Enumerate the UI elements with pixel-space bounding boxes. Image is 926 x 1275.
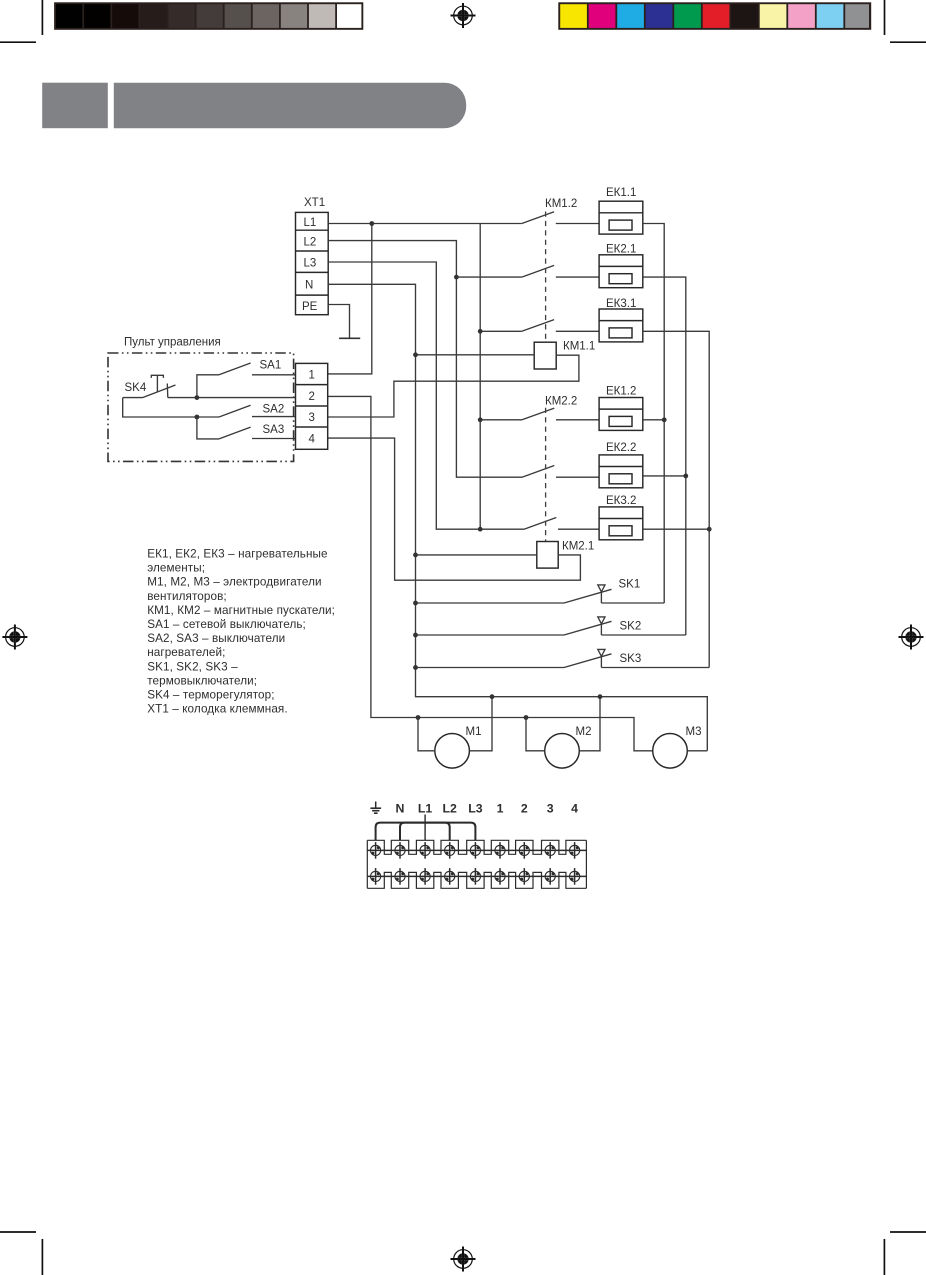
svg-text:3: 3 xyxy=(547,801,554,815)
wire L3 xyxy=(328,262,524,529)
svg-text:L3: L3 xyxy=(468,801,483,815)
switch SA2 xyxy=(219,405,296,417)
svg-text:4: 4 xyxy=(571,801,578,815)
wire L1 drop to terminal 1 xyxy=(328,224,372,374)
wire EK3.2 to bus xyxy=(643,528,709,530)
contact KM2.2 pole 3 xyxy=(524,518,599,530)
svg-text:L1: L1 xyxy=(304,217,317,229)
svg-text:SA1 – сетевой выключатель;: SA1 – сетевой выключатель; xyxy=(147,618,306,631)
svg-text:ХТ1 – колодка клеммная.: ХТ1 – колодка клеммная. xyxy=(147,703,288,716)
wire EK2.1 to SK2 bus xyxy=(643,277,686,635)
wire terminal 2 to motor bus xyxy=(328,396,653,750)
wire EK3.1 to SK3 bus xyxy=(643,331,709,667)
wire SA link lower xyxy=(197,417,219,439)
crop mark bottom-left xyxy=(0,1232,42,1275)
svg-text:SK1, SK2, SK3 –: SK1, SK2, SK3 – xyxy=(147,660,238,673)
motor M2 xyxy=(545,734,580,769)
registration mark right xyxy=(899,625,924,650)
junction bus/M2 xyxy=(524,715,529,720)
junction N/SK2 xyxy=(413,633,418,638)
svg-text:SA3: SA3 xyxy=(263,424,285,436)
wire N to KM2.1 xyxy=(416,554,537,556)
coil KM1.1 xyxy=(534,342,556,369)
svg-text:N: N xyxy=(305,280,313,292)
ground PE xyxy=(339,337,360,339)
junction L2/EK2.1 xyxy=(454,275,459,280)
wire M1 left xyxy=(418,718,435,751)
coil KM2.1 xyxy=(537,542,558,569)
svg-text:SK1: SK1 xyxy=(619,579,641,591)
terminal block 1-4 xyxy=(296,363,328,449)
svg-text:ЕК3.1: ЕК3.1 xyxy=(606,298,636,310)
svg-text:Пульт управления: Пульт управления xyxy=(124,337,221,349)
svg-text:ЕК3.2: ЕК3.2 xyxy=(606,495,636,507)
svg-text:SK2: SK2 xyxy=(620,621,642,633)
svg-text:М1, М2, М3 – электродвигатели: М1, М2, М3 – электродвигатели xyxy=(147,576,321,589)
terminal strip side walls xyxy=(367,840,586,888)
svg-text:М2: М2 xyxy=(576,726,592,738)
junction L1-branch/L3 line xyxy=(478,527,483,532)
linkage KM2.2 dashed xyxy=(545,408,547,542)
wire M1 right xyxy=(469,697,492,751)
wire N to KM1.1 xyxy=(416,354,535,356)
svg-text:ЕК2.1: ЕК2.1 xyxy=(606,243,636,255)
wire L1 drop xyxy=(424,815,426,841)
heater EK3.2 xyxy=(599,507,643,540)
heater EK2.2 xyxy=(599,455,643,488)
grayscale calibration bar xyxy=(54,2,363,30)
wire N xyxy=(328,284,707,751)
svg-text:SA2: SA2 xyxy=(263,404,285,416)
jumper N-L3 xyxy=(400,823,475,841)
junction L1-branch/EK3.1 xyxy=(478,329,483,334)
heater EK1.2 xyxy=(599,398,643,431)
wire L1 vertical branch xyxy=(479,224,481,530)
terminal strip body lower comb xyxy=(367,872,586,888)
wire EK2.2 to bus xyxy=(643,475,686,477)
wire EK3.1 feed xyxy=(480,330,522,332)
wire KM1.1 to terminal 3 xyxy=(328,355,579,417)
svg-text:М1: М1 xyxy=(466,726,482,738)
header bar long block xyxy=(114,83,466,129)
junction N-bus/M2 xyxy=(598,694,603,699)
svg-text:3: 3 xyxy=(309,412,315,424)
svg-text:2: 2 xyxy=(309,391,315,403)
motor M1 xyxy=(435,734,470,769)
svg-text:L2: L2 xyxy=(443,801,458,815)
svg-text:PE: PE xyxy=(302,301,318,313)
wire M2 right xyxy=(579,697,600,751)
svg-text:ЕК1.2: ЕК1.2 xyxy=(606,385,636,397)
wire L2 xyxy=(328,241,522,478)
junction L1-branch/KM2.2 xyxy=(478,417,483,422)
wire M3 right xyxy=(687,750,707,752)
screw terminals upper row xyxy=(371,842,580,859)
contact KM2.2 pole 2 xyxy=(522,466,599,478)
wire PE xyxy=(328,305,349,339)
wire KM2.1 to terminal 4 xyxy=(328,438,581,580)
svg-text:L3: L3 xyxy=(304,258,317,270)
contact KM1.2 pole 2 xyxy=(522,265,599,277)
svg-text:1: 1 xyxy=(309,370,315,382)
switch SA1 xyxy=(219,363,296,375)
svg-text:4: 4 xyxy=(309,434,316,446)
junction SK4 out xyxy=(195,395,200,400)
thermal switch SK1 xyxy=(416,585,665,603)
contact KM1.2 pole 1 xyxy=(522,212,599,224)
heater EK1.1 xyxy=(599,201,643,234)
wire M2 left xyxy=(526,718,545,751)
wire L1 xyxy=(328,223,522,225)
junction EK3.2 bus xyxy=(707,527,712,532)
switch SA3 xyxy=(219,427,296,439)
svg-text:XT1: XT1 xyxy=(304,197,325,209)
junction N/SK1 xyxy=(413,601,418,606)
svg-text:L1: L1 xyxy=(418,801,433,815)
svg-text:КМ2.2: КМ2.2 xyxy=(545,396,577,408)
svg-text:L2: L2 xyxy=(304,237,317,249)
svg-text:термовыключатели;: термовыключатели; xyxy=(147,674,257,687)
svg-text:ЕК1, ЕК2, ЕК3 – нагревательные: ЕК1, ЕК2, ЕК3 – нагревательные xyxy=(147,548,327,561)
junction N/SK3 xyxy=(413,665,418,670)
wire EK2.1 feed xyxy=(456,276,521,278)
motor M3 xyxy=(653,734,688,769)
junction L1/terminal1 xyxy=(369,221,374,226)
svg-text:2: 2 xyxy=(521,801,528,815)
wire EK1.2 to bus xyxy=(643,419,664,421)
svg-text:нагревателей;: нагревателей; xyxy=(147,646,225,659)
svg-text:вентиляторов;: вентиляторов; xyxy=(147,590,227,603)
crop mark top-right xyxy=(885,0,926,42)
svg-text:1: 1 xyxy=(497,801,504,815)
svg-text:N: N xyxy=(396,801,405,815)
contact KM2.2 pole 1 feed xyxy=(480,419,522,421)
junction EK1.2 bus xyxy=(662,417,667,422)
heater EK2.1 xyxy=(599,255,643,288)
heater EK3.1 xyxy=(599,309,643,342)
svg-text:SA1: SA1 xyxy=(260,360,282,372)
legend text xyxy=(147,548,335,716)
contact KM2.2 pole 1 xyxy=(522,408,599,420)
svg-text:КМ1.1: КМ1.1 xyxy=(563,341,595,353)
linkage KM1.2 dashed xyxy=(545,212,547,343)
junction N/KM1.1 xyxy=(413,352,418,357)
svg-text:SK4 – терморегулятор;: SK4 – терморегулятор; xyxy=(147,689,274,702)
jumper PE-L2 xyxy=(376,823,450,841)
junction N-bus/M1 xyxy=(490,694,495,699)
registration mark top xyxy=(451,3,476,28)
junction EK2.2 bus xyxy=(683,474,688,479)
thermal switch SK2 xyxy=(416,617,686,635)
ground label terminal strip xyxy=(370,802,381,814)
svg-text:SK4: SK4 xyxy=(125,382,147,394)
terminal strip upper row line xyxy=(367,849,586,851)
header bar small block xyxy=(42,83,108,129)
svg-text:ЕК1.1: ЕК1.1 xyxy=(606,187,636,199)
thermostat SK4 xyxy=(123,375,296,397)
crop mark top-left xyxy=(0,0,42,42)
svg-text:ЕК2.2: ЕК2.2 xyxy=(606,442,636,454)
colour calibration bar xyxy=(558,2,871,30)
screw terminals lower row xyxy=(371,868,580,885)
thermal switch SK3 xyxy=(416,649,710,667)
contact KM1.2 pole 3 xyxy=(522,320,599,332)
svg-text:элементы;: элементы; xyxy=(147,562,205,575)
wire EK1.1 to SK1 bus xyxy=(643,224,664,604)
terminal strip lower row line xyxy=(367,875,586,877)
svg-text:КМ2.1: КМ2.1 xyxy=(562,541,594,553)
junction SA link xyxy=(195,415,200,420)
junction N/KM2.1 xyxy=(413,553,418,558)
terminal strip body upper comb xyxy=(367,840,586,854)
registration mark left xyxy=(2,625,27,650)
svg-text:SK3: SK3 xyxy=(620,653,642,665)
wire SA1 stub xyxy=(197,375,219,398)
crop mark bottom-right xyxy=(884,1232,926,1275)
wire SK4 left loop xyxy=(123,398,219,417)
junction bus/M1 xyxy=(416,715,421,720)
svg-text:SA2, SA3 – выключатели: SA2, SA3 – выключатели xyxy=(147,632,285,645)
svg-text:КМ1.2: КМ1.2 xyxy=(545,198,577,210)
svg-text:М3: М3 xyxy=(686,726,702,738)
terminal block XT1 xyxy=(296,212,329,314)
control panel box xyxy=(108,353,294,461)
svg-text:КМ1, КМ2 – магнитные пускатели: КМ1, КМ2 – магнитные пускатели; xyxy=(147,604,335,617)
registration mark bottom xyxy=(451,1247,476,1272)
